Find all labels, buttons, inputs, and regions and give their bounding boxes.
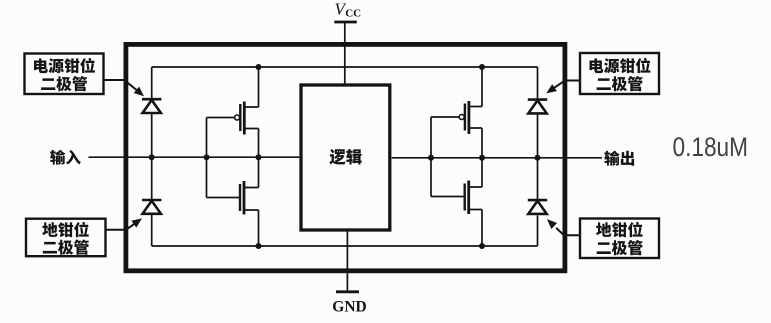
input label 输入 [50, 150, 65, 165]
svg-text:CC: CC [345, 7, 361, 19]
input wire [89, 156, 300, 158]
logic label 逻辑 [329, 149, 345, 165]
GND bottom rail [152, 245, 538, 247]
diode D4 ground clamp (output side) [528, 200, 547, 214]
svg-text:0.18uM: 0.18uM [673, 132, 749, 162]
output label 输出 [604, 151, 619, 166]
arrow: top-left to D1 [104, 80, 138, 91]
svg-text:GND: GND [332, 298, 366, 315]
arrow: top-right to D3 [554, 81, 580, 88]
label box: power clamp diode (top-right) [580, 53, 659, 94]
PMOS Q3 (right) [431, 67, 482, 158]
diode D1 power clamp (input side) [142, 99, 161, 113]
NMOS Q2 (left) [207, 157, 259, 246]
left diode column wire [151, 67, 153, 246]
diode D2 ground clamp (input side) [142, 200, 161, 214]
diode D3 power clamp (output side) [528, 100, 547, 114]
GND terminal wire [346, 232, 348, 292]
arrow: bottom-right to D4 [556, 228, 580, 235]
PMOS Q1 (left) [207, 67, 259, 157]
NMOS Q4 (right) [431, 158, 482, 246]
arrow: bottom-left to D2 [106, 224, 135, 230]
VCC top rail [152, 66, 538, 68]
chip outer boundary [126, 44, 565, 270]
output wire [392, 157, 602, 159]
label box: power clamp diode (top-left) [25, 54, 104, 95]
label box: ground clamp diode (bottom-left) [26, 219, 106, 257]
Vcc terminal wire [344, 22, 346, 85]
label box: ground clamp diode (bottom-right) [580, 219, 659, 259]
right diode column wire [537, 67, 539, 246]
logic block U1 [301, 85, 390, 230]
gate column wire (left) [206, 118, 208, 198]
gate column wire (right) [430, 117, 432, 197]
